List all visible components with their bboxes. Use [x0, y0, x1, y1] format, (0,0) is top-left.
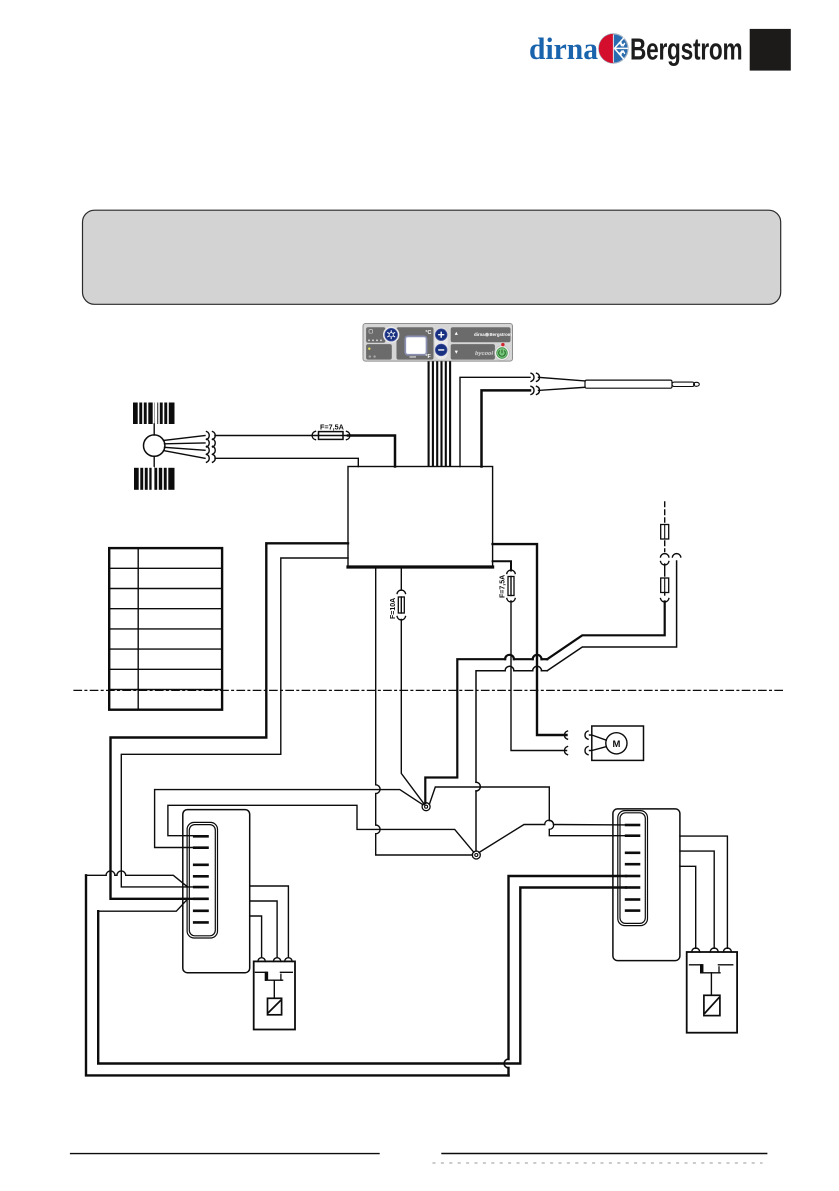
- relay R1 box: [254, 961, 295, 1029]
- fan connector pair 2: [207, 439, 216, 447]
- svg-text:F=10A: F=10A: [390, 598, 397, 619]
- temperature probe tip: [672, 382, 699, 386]
- wire fuse F1 to control box (battery feed): [348, 436, 395, 467]
- wire control box right 2 to fuse F2: [493, 561, 511, 570]
- fuse F3 F=10A vertical: [390, 597, 404, 619]
- wire fuse F3 to node N1: [401, 620, 424, 805]
- legend table: [109, 548, 222, 710]
- fuse F1 connector right: [347, 431, 350, 439]
- ribbon cable to panel: [429, 361, 451, 466]
- wire K2 to relay R2 pin3: [680, 836, 727, 948]
- fan lead wire 2: [165, 442, 206, 445]
- blower fan lower grille: [134, 468, 175, 490]
- wire control box to probe lead 1: [460, 377, 530, 466]
- supply connector pair vertical: [661, 554, 669, 565]
- snowflake button: [383, 327, 399, 343]
- node N2 junction: [472, 851, 480, 859]
- grey rounded title box (empty): [83, 210, 781, 304]
- svg-text:°F: °F: [425, 354, 431, 360]
- condenser motor connector pairs: [564, 731, 588, 739]
- right dark block top: [451, 327, 511, 342]
- fuse F1 F=7,5A: [316, 423, 348, 440]
- temperature probe body: [585, 380, 672, 388]
- wire relay K1 pin1 to node N2: [168, 805, 474, 852]
- wire auxiliary to node N2: [476, 561, 677, 851]
- wire K1 to relay R1 pin2: [250, 901, 277, 957]
- footer rule right: [442, 1153, 767, 1155]
- relay R2 socket cups: [692, 948, 732, 952]
- footer dotted rule right: [433, 1162, 762, 1164]
- relay R2 contact symbol: [690, 965, 733, 996]
- right dark block bottom: [451, 344, 495, 360]
- logo mark circle: [599, 34, 628, 63]
- supply connector bottom: [661, 599, 669, 602]
- fuse F2 F=7,5A vertical: [500, 575, 515, 598]
- panel sub-block bottom-left: [366, 344, 392, 360]
- wire control box left 1 (thick) to relay K1 pin6: [111, 543, 349, 899]
- panel sub-block top-left: [366, 327, 385, 343]
- wire fan lead 4 to control box: [215, 458, 358, 466]
- control panel body: [363, 324, 513, 362]
- fuse F2 connector top: [507, 570, 515, 573]
- power button: [495, 346, 510, 361]
- fan connector pair 3: [207, 446, 216, 454]
- condenser motor M2 box: [592, 726, 644, 760]
- auxiliary connector cup: [672, 554, 680, 557]
- wire node N2 to relay K2 pin1: [479, 825, 545, 853]
- wire control box right 1 (thick) to condenser motor: [493, 544, 567, 735]
- display window: [405, 336, 426, 354]
- fan connector pair 1: [207, 432, 216, 440]
- relay unit K1 outer shell: [183, 810, 250, 973]
- fan lead wire 1: [164, 436, 206, 441]
- wire bus left pin6 diagonal: [98, 899, 187, 911]
- relay R2 coil: [704, 995, 720, 1015]
- display bottom tiny label: [410, 356, 417, 358]
- wire node N1 to relay K2 pin2: [429, 787, 549, 821]
- condenser motor circle: [606, 733, 627, 754]
- svg-text:M: M: [612, 739, 620, 750]
- fuse F4: [661, 525, 669, 540]
- svg-text:dirna: dirna: [529, 33, 598, 66]
- wire bus bottom pin5 loop (thick): [86, 875, 626, 1075]
- svg-text:°C: °C: [425, 330, 431, 336]
- wire K2 to relay R2 pin2: [680, 851, 714, 948]
- fan connector pair 4: [207, 454, 216, 462]
- wire supply chain to node N1 (thick): [425, 602, 664, 804]
- relay R1 contact symbol: [255, 972, 292, 998]
- wire K1 to relay R1 pin1: [250, 916, 262, 957]
- fuse F1 connector left: [312, 431, 315, 439]
- relay unit K2 pin strip: [618, 811, 648, 926]
- supply chain dashed mid: [664, 541, 666, 552]
- wire bus left pin5 (hops): [86, 871, 188, 887]
- control box U1: [348, 467, 493, 568]
- wire bus bottom pin6 loop (thick): [98, 888, 626, 1064]
- fan lead wire 3: [165, 447, 206, 450]
- relay R1 socket cups: [258, 958, 292, 962]
- condenser motor stubs: [590, 735, 592, 751]
- plus minus pill: [435, 328, 448, 360]
- probe connector pair 2: [531, 386, 540, 394]
- wire K2 to relay R2 pin1: [680, 866, 696, 948]
- wire control box bottom 1 to node N2: [376, 567, 473, 855]
- svg-text:Bergstrom: Bergstrom: [630, 31, 742, 66]
- black corner square: [750, 29, 791, 71]
- up triangle: [455, 332, 458, 335]
- fuse F3 connector bottom: [397, 617, 405, 620]
- relay unit K1 pin strip: [187, 822, 217, 938]
- fuse F3 connector top: [397, 590, 405, 593]
- wire fan feed to fuse F1: [215, 435, 315, 437]
- relay unit K2 pins: [626, 825, 639, 911]
- fuse F2 connector bottom: [507, 599, 515, 602]
- fuse F5: [661, 564, 669, 595]
- svg-text:F=7,5A: F=7,5A: [500, 575, 507, 598]
- relay R1 coil: [268, 998, 282, 1015]
- probe neck wires: [539, 377, 586, 390]
- relay R2 box: [687, 952, 737, 1033]
- svg-text:Bergstrom: Bergstrom: [490, 332, 512, 337]
- probe connector pair 1: [531, 373, 540, 381]
- svg-text:dirna: dirna: [474, 332, 485, 337]
- wire K1 to relay R1 pin3: [250, 886, 289, 957]
- fan lead wire 4: [164, 451, 206, 459]
- footer rule left: [71, 1153, 379, 1155]
- down triangle: [455, 351, 458, 354]
- blower fan motor circle M1: [153, 424, 155, 435]
- wire control box left 2 to relay K1 pin5: [121, 558, 348, 887]
- relay unit K2 outer shell: [613, 809, 680, 961]
- svg-text:bycool: bycool: [475, 351, 493, 357]
- blower fan upper grille: [133, 403, 175, 425]
- panel sub-block centre (display area): [397, 327, 434, 359]
- condenser motor leads inside: [592, 735, 607, 751]
- wire relay K1 pin2 to node N1: [155, 790, 423, 848]
- supply chain dashed lead-in: [664, 502, 666, 522]
- relay unit K1 pins: [194, 836, 207, 922]
- wire control box to probe lead 2 (thick): [482, 390, 531, 466]
- wire control box bottom 2 to fuse F3: [400, 567, 402, 590]
- node N1 junction: [422, 803, 430, 811]
- power red led: [501, 343, 504, 346]
- svg-text:F=7,5A: F=7,5A: [320, 423, 344, 432]
- bulkhead dash-dot separator line: [74, 689, 786, 691]
- wire fuse F2 to condenser motor: [511, 601, 567, 751]
